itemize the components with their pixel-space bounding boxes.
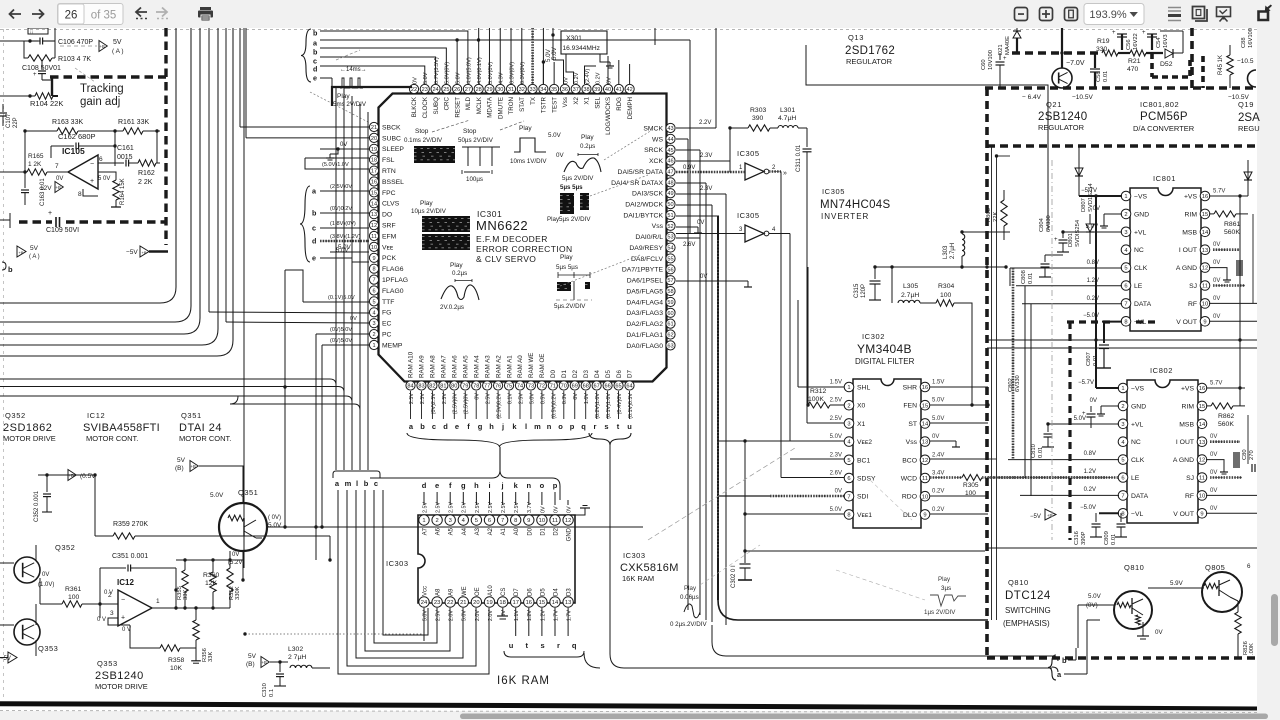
power +B 0.5V	[68, 470, 76, 481]
transistor Q21	[1052, 68, 1072, 88]
svg-text:n: n	[547, 422, 552, 431]
svg-text:16: 16	[526, 600, 532, 606]
svg-text:0V: 0V	[556, 152, 564, 159]
svg-text:MN74HC04S: MN74HC04S	[820, 199, 890, 211]
svg-text:16: 16	[371, 180, 377, 186]
svg-text:5.0V: 5.0V	[456, 72, 462, 84]
resistor R826 100K	[1235, 612, 1241, 634]
svg-text:26: 26	[65, 10, 78, 22]
svg-text:7: 7	[501, 518, 504, 524]
svg-text:3: 3	[847, 421, 850, 427]
svg-text:NC: NC	[1134, 247, 1144, 254]
svg-text:RAM OE: RAM OE	[539, 354, 546, 378]
svg-text:Play: Play	[337, 93, 350, 100]
svg-text:R21: R21	[1128, 58, 1141, 65]
svg-text:70: 70	[561, 384, 567, 390]
svg-text:4.7µH: 4.7µH	[778, 115, 796, 122]
svg-text:−5.7V: −5.7V	[1078, 380, 1094, 386]
svg-text:Stop: Stop	[415, 128, 429, 135]
dashed bottom of Q810 box	[987, 656, 1257, 660]
svg-text:5.0V: 5.0V	[932, 398, 944, 404]
dash leader lines	[432, 120, 470, 132]
svg-text:Q810: Q810	[1124, 563, 1144, 572]
svg-text:0.3V: 0.3V	[562, 393, 568, 404]
svg-text:1.2V: 1.2V	[1087, 278, 1099, 284]
wire R303 corner	[729, 128, 731, 172]
capacitor C58 0.01	[1094, 53, 1096, 68]
svg-text:Q352: Q352	[5, 411, 26, 420]
svg-text:2 2K: 2 2K	[138, 179, 153, 186]
svg-text:100: 100	[940, 292, 952, 299]
thin rails x991 x996	[991, 146, 993, 620]
svg-text:0V: 0V	[606, 77, 612, 84]
svg-text:+VS: +VS	[1184, 194, 1198, 201]
IC303 bottom pins 24-13	[419, 585, 574, 621]
junction dot MCLK wire	[477, 38, 480, 41]
wire SLEEP 0V ground	[320, 148, 369, 150]
svg-text:0V: 0V	[540, 506, 546, 513]
capacitor C54 16V3	[1151, 34, 1153, 50]
svg-text:5.0V: 5.0V	[422, 610, 428, 621]
svg-text:16.9344MHz: 16.9344MHz	[563, 45, 600, 52]
svg-text:R312: R312	[810, 388, 826, 395]
capacitor C109	[55, 217, 57, 227]
svg-text:9: 9	[923, 512, 926, 518]
svg-text:4.0V(5.0V): 4.0V(5.0V)	[466, 57, 472, 84]
svg-text:330K: 330K	[235, 586, 241, 600]
svg-text:54: 54	[667, 246, 673, 252]
svg-text:4: 4	[372, 310, 375, 316]
vertical bus wires center-bottom	[712, 625, 1052, 656]
transistor Q19 clipped	[1248, 70, 1257, 87]
svg-text:49: 49	[667, 191, 673, 197]
svg-text:5ms 2V/DIV: 5ms 2V/DIV	[333, 101, 367, 108]
svg-text:20: 20	[371, 136, 377, 142]
svg-text:0V: 0V	[42, 572, 49, 578]
svg-text:16V3: 16V3	[1163, 34, 1169, 48]
svg-text:C352 0.001: C352 0.001	[34, 490, 40, 522]
IC301 bottom pin stub wires	[411, 391, 630, 419]
svg-text:SWITCHING: SWITCHING	[1005, 606, 1051, 615]
svg-text:IC303: IC303	[386, 559, 409, 568]
svg-text:X0: X0	[857, 403, 866, 410]
svg-text:( A ): ( A )	[112, 48, 124, 55]
vertical scrollbar thumb	[1271, 594, 1278, 646]
svg-text:1.2V: 1.2V	[1084, 469, 1096, 475]
svg-text:13: 13	[1202, 248, 1208, 254]
svg-text:5.0V: 5.0V	[423, 72, 429, 84]
svg-text:D7: D7	[514, 588, 520, 596]
svg-text:R359 270K: R359 270K	[113, 521, 148, 528]
svg-text:0 2µs.2V/DIV: 0 2µs.2V/DIV	[670, 621, 707, 628]
svg-text:1.6V: 1.6V	[584, 393, 590, 404]
arrow PCK leader	[310, 92, 370, 123]
svg-text:R304: R304	[938, 283, 954, 290]
svg-text:E.F.M DECODER: E.F.M DECODER	[476, 234, 548, 244]
svg-text:D6: D6	[527, 588, 533, 596]
svg-text:0V: 0V	[1213, 314, 1220, 320]
svg-text:0.1V: 0.1V	[507, 393, 513, 404]
svg-text:Play: Play	[560, 254, 573, 261]
svg-text:0V: 0V	[697, 220, 704, 226]
svg-text:5.0V: 5.0V	[268, 522, 282, 529]
svg-text:RAM A1: RAM A1	[506, 355, 513, 378]
svg-text:0 V: 0 V	[97, 617, 106, 623]
svg-text:13: 13	[565, 600, 571, 606]
svg-text:19: 19	[371, 147, 377, 153]
svg-text:C310: C310	[262, 683, 268, 697]
svg-text:DEMPH: DEMPH	[627, 97, 634, 119]
svg-text:V OUT: V OUT	[1173, 511, 1194, 518]
diode D52	[1165, 49, 1173, 58]
svg-text:15: 15	[371, 190, 377, 196]
svg-text:SHR: SHR	[903, 385, 917, 392]
svg-text:(2.5V)0V: (2.5V)0V	[453, 393, 459, 415]
svg-text:5.0V: 5.0V	[548, 132, 562, 139]
svg-text:77: 77	[484, 384, 490, 390]
svg-text:0.06µs: 0.06µs	[680, 594, 699, 601]
svg-text:2.2V: 2.2V	[699, 120, 711, 126]
svg-text:(0.1V)0.5V: (0.1V)0.5V	[628, 393, 634, 419]
svg-text:(0V)5.0V: (0V)5.0V	[330, 327, 352, 333]
svg-text:SRCK: SRCK	[644, 147, 663, 154]
svg-text:0.7V(3.5V): 0.7V(3.5V)	[434, 57, 440, 84]
svg-text:5.0V: 5.0V	[529, 393, 535, 404]
svg-text:5 0V: 5 0V	[98, 176, 110, 182]
svg-text:33: 33	[529, 87, 535, 93]
svg-text:d: d	[443, 422, 448, 431]
wire right edge vertical	[1252, 214, 1254, 303]
svg-text:Q805: Q805	[1205, 563, 1225, 572]
svg-text:−5.0V: −5.0V	[1080, 505, 1096, 511]
wire SBCK SUBC stubs	[240, 126, 369, 128]
svg-text:0V: 0V	[1210, 506, 1217, 512]
svg-text:(2.4V): (2.4V)	[585, 69, 591, 84]
svg-text:−10.5: −10.5	[1237, 58, 1254, 65]
svg-text:0V: 0V	[1213, 296, 1220, 302]
svg-text:SDSY: SDSY	[857, 476, 876, 483]
svg-text:e: e	[312, 254, 316, 263]
svg-text:5: 5	[1124, 266, 1127, 272]
svg-text:BLKCK: BLKCK	[411, 96, 418, 117]
svg-text:1.2V: 1.2V	[540, 610, 546, 621]
IC303 bottom letters u t s r q	[509, 608, 577, 650]
svg-text:C60: C60	[981, 59, 987, 70]
svg-text:6: 6	[488, 518, 491, 524]
svg-text:RESET: RESET	[454, 97, 461, 118]
svg-text:10V100: 10V100	[988, 50, 994, 70]
svg-text:MDATA: MDATA	[487, 96, 494, 118]
svg-text:RAM A2: RAM A2	[495, 355, 502, 378]
vertical hatch lines left of DACs	[1012, 268, 1015, 460]
svg-text:14: 14	[552, 600, 559, 606]
svg-text:(5.0V)1.0V: (5.0V)1.0V	[322, 162, 349, 168]
svg-text:IC105: IC105	[62, 146, 85, 156]
svg-text:0.01: 0.01	[1028, 273, 1034, 284]
svg-text:2SD1862: 2SD1862	[3, 422, 52, 434]
power +B 5V(A)	[60, 45, 97, 47]
svg-text:b: b	[364, 479, 369, 488]
svg-text:2.3V: 2.3V	[700, 153, 712, 159]
svg-text:100µs: 100µs	[466, 176, 483, 183]
svg-text:c: c	[374, 479, 378, 488]
svg-text:DAI5/SR DATA: DAI5/SR DATA	[618, 169, 664, 176]
svg-text:SLEEP: SLEEP	[382, 146, 404, 153]
hatched vertical pin33	[531, 28, 534, 85]
svg-text:CXK5816M: CXK5816M	[620, 562, 679, 574]
svg-text:4.0V(0.1V): 4.0V(0.1V)	[477, 57, 483, 84]
svg-text:23: 23	[434, 600, 440, 606]
svg-text:s: s	[541, 641, 545, 650]
svg-text:9: 9	[527, 518, 530, 524]
svg-text:Vss: Vss	[906, 439, 918, 446]
svg-text:C80: C80	[1242, 449, 1248, 460]
svg-text:MOTOR CONT.: MOTOR CONT.	[86, 434, 138, 443]
svg-text:8: 8	[1124, 319, 1127, 325]
svg-text:IC302: IC302	[862, 332, 885, 341]
svg-text:R862: R862	[1218, 413, 1234, 420]
svg-text:16: 16	[1199, 386, 1205, 392]
svg-text:Q13: Q13	[848, 33, 864, 42]
hatched wire DAI5 to inverter	[676, 171, 745, 174]
svg-text:56: 56	[667, 267, 673, 273]
svg-text:A6: A6	[436, 527, 442, 535]
svg-text:SEL: SEL	[594, 96, 601, 108]
svg-text:X2: X2	[573, 96, 580, 104]
svg-text:C315: C315	[854, 283, 860, 298]
svg-text:b: b	[8, 265, 13, 274]
svg-text:−5.0V: −5.0V	[1083, 313, 1099, 319]
svg-text:0.01: 0.01	[1038, 447, 1044, 458]
svg-text:2.5V: 2.5V	[422, 502, 428, 513]
svg-text:52: 52	[667, 224, 673, 230]
svg-text:0.3V(0V): 0.3V(0V)	[509, 62, 515, 84]
svg-text:55: 55	[667, 256, 673, 262]
dotted 5V B supply to IC303 Vcc	[245, 633, 424, 635]
svg-text:1: 1	[156, 598, 160, 605]
IC302 body	[853, 379, 921, 528]
svg-text:PCM56P: PCM56P	[1140, 111, 1188, 123]
svg-text:RDO: RDO	[902, 494, 917, 501]
svg-text:Vᴇᴇ1: Vᴇᴇ1	[857, 512, 872, 519]
svg-text:6V330: 6V330	[1015, 375, 1021, 392]
svg-text:2.5V: 2.5V	[420, 393, 426, 404]
svg-text:SJ: SJ	[1189, 283, 1197, 290]
svg-text:38: 38	[583, 87, 589, 93]
svg-text:1µs 2V/DIV: 1µs 2V/DIV	[924, 609, 956, 616]
capacitor C802 6V330	[1090, 406, 1092, 412]
svg-text:RIM: RIM	[1182, 403, 1195, 410]
svg-text:2.4V: 2.4V	[932, 452, 944, 458]
svg-text:CLVS: CLVS	[382, 201, 400, 208]
svg-text:YM3404B: YM3404B	[857, 342, 912, 356]
wire X1 up	[807, 422, 844, 424]
wire Vss52 ground	[676, 226, 690, 228]
svg-text:6: 6	[1124, 284, 1127, 290]
svg-text:Vss: Vss	[562, 97, 569, 107]
svg-text:−: −	[121, 597, 125, 604]
svg-text:12: 12	[565, 518, 571, 524]
svg-text:−VS: −VS	[1134, 194, 1148, 201]
svg-text:C54: C54	[1156, 37, 1162, 48]
svg-text:MN6622: MN6622	[476, 218, 528, 233]
left edge stubs	[0, 40, 6, 42]
svg-text:IC305: IC305	[737, 211, 760, 220]
svg-text:0V: 0V	[1213, 260, 1220, 266]
svg-text:RAM A8: RAM A8	[430, 355, 437, 378]
svg-text:8: 8	[1121, 511, 1124, 517]
svg-text:L302: L302	[288, 646, 303, 653]
svg-text:Play: Play	[684, 585, 697, 592]
IC801 right hooks and hatches	[1213, 248, 1240, 251]
svg-text:2: 2	[847, 403, 850, 409]
svg-text:d: d	[312, 237, 316, 246]
svg-text:D4: D4	[554, 588, 560, 596]
capacitor C56 16V22	[1121, 34, 1123, 50]
svg-text:I OUT: I OUT	[1179, 247, 1197, 254]
svg-text:D3: D3	[567, 588, 573, 596]
IC801 right pins 16-9	[1176, 189, 1226, 327]
svg-text:i: i	[488, 481, 490, 490]
svg-text:DMUTE: DMUTE	[497, 97, 504, 119]
thick -VS rail to IC802	[1095, 340, 1097, 376]
svg-text:560K: 560K	[1218, 421, 1234, 428]
svg-text:DA1/FLAG1: DA1/FLAG1	[626, 332, 663, 339]
svg-text:TX: TX	[530, 97, 537, 105]
wires pins 1-2 down to motor region	[315, 334, 317, 560]
svg-text:MLD: MLD	[465, 96, 472, 110]
wire +VS vertical rail right	[1239, 196, 1241, 406]
svg-text:43: 43	[667, 126, 673, 132]
IC301 right pins 43-63	[611, 123, 675, 350]
diagonal fold leader marks	[648, 448, 795, 540]
wires into IC802 left	[1095, 376, 1097, 388]
wire x285 vertical mid	[284, 270, 286, 527]
svg-text:9: 9	[1200, 511, 1203, 517]
svg-text:2 7µH: 2 7µH	[288, 654, 306, 661]
svg-text:DTC124: DTC124	[1005, 590, 1051, 602]
svg-text:14: 14	[922, 421, 929, 427]
svg-text:10K: 10K	[170, 665, 183, 672]
svg-text:(3.8V)(1.2V): (3.8V)(1.2V)	[330, 234, 361, 240]
svg-text:11: 11	[1199, 476, 1205, 482]
svg-text:2.5V: 2.5V	[830, 398, 842, 404]
svg-text:DAI3/SCK: DAI3/SCK	[632, 191, 663, 198]
resistor R164	[113, 180, 119, 200]
wires node group2 to pins	[320, 190, 369, 192]
fit page icon	[1065, 8, 1078, 21]
svg-text:Q351: Q351	[238, 488, 258, 497]
svg-text:1.1V: 1.1V	[514, 610, 520, 621]
svg-text:5.7V: 5.7V	[1210, 381, 1222, 387]
svg-text:C808: C808	[1021, 270, 1027, 284]
svg-text:IC305: IC305	[737, 149, 760, 158]
svg-text:Vcc: Vcc	[423, 586, 429, 596]
svg-text:2.5V: 2.5V	[488, 502, 494, 513]
wire SDSY	[781, 477, 844, 479]
svg-text:e: e	[435, 481, 439, 490]
svg-text:−VL: −VL	[1131, 511, 1144, 518]
exit fullscreen icon	[1259, 5, 1273, 21]
wire 267 horizontal	[875, 266, 1007, 268]
svg-text:DAI4/ SR DATAX: DAI4/ SR DATAX	[611, 180, 663, 187]
svg-text:C107: C107	[6, 113, 12, 128]
svg-text:0.01: 0.01	[1111, 534, 1117, 545]
svg-text:60: 60	[667, 311, 673, 317]
svg-text:1: 1	[372, 343, 375, 349]
brace letters b a bottom right	[1048, 655, 1056, 680]
svg-text:42: 42	[626, 87, 632, 93]
svg-text:82: 82	[429, 384, 435, 390]
svg-text:5.0V: 5.0V	[830, 507, 842, 513]
svg-text:−10.5V: −10.5V	[1072, 94, 1093, 101]
svg-text:b: b	[420, 422, 425, 431]
svg-text:5.0V: 5.0V	[551, 46, 558, 60]
svg-text:5µs 5µs: 5µs 5µs	[560, 184, 583, 191]
svg-text:1.2V: 1.2V	[527, 610, 533, 621]
page top edge	[0, 29, 1257, 31]
bus funnel brace under IC301 a-p	[407, 433, 592, 447]
svg-text:(0.2V)1.6V: (0.2V)1.6V	[595, 393, 601, 419]
svg-text:Play5µs 2V/DIV: Play5µs 2V/DIV	[547, 216, 591, 223]
svg-text:GND: GND	[1134, 211, 1149, 218]
jump prev icon	[136, 8, 147, 17]
svg-text:NC: NC	[1131, 439, 1141, 446]
svg-text:+VL: +VL	[1134, 229, 1147, 236]
svg-text:C163 0.01: C163 0.01	[40, 178, 46, 206]
wire DEMPH right corner	[654, 28, 656, 45]
svg-text:0V: 0V	[1210, 452, 1217, 458]
svg-text:Q19: Q19	[1238, 100, 1254, 109]
svg-text:1: 1	[1121, 386, 1124, 392]
svg-text:6: 6	[1121, 476, 1124, 482]
svg-text:R165: R165	[28, 153, 44, 160]
svg-text:45: 45	[667, 148, 673, 154]
svg-text:D2: D2	[572, 370, 579, 378]
wires b a to brace right	[1052, 656, 1058, 661]
svg-text:0V: 0V	[1213, 242, 1220, 248]
svg-text:b: b	[312, 209, 317, 218]
svg-text:120P: 120P	[861, 284, 867, 298]
wire feedback left	[94, 475, 96, 536]
svg-text:Vᴇᴇ2: Vᴇᴇ2	[857, 439, 872, 446]
svg-text:l: l	[525, 422, 527, 431]
svg-text:WS: WS	[652, 136, 663, 143]
svg-text:0.2V: 0.2V	[932, 489, 944, 495]
svg-text:d: d	[313, 65, 317, 74]
bus corner curves	[230, 396, 238, 404]
svg-text:3: 3	[110, 610, 114, 617]
svg-text:(0.5V)0.2V: (0.5V)0.2V	[551, 393, 557, 419]
svg-text:c: c	[312, 224, 316, 233]
svg-text:67: 67	[594, 384, 600, 390]
svg-text:A GND: A GND	[1176, 265, 1197, 272]
svg-text:2.6V: 2.6V	[830, 471, 842, 477]
svg-text:R103 4 7K: R103 4 7K	[58, 56, 91, 63]
svg-text:2.7µH: 2.7µH	[901, 292, 919, 299]
capacitor C106	[30, 40, 38, 42]
svg-text:D3: D3	[583, 370, 590, 378]
svg-text:g: g	[478, 422, 483, 431]
svg-text:A1: A1	[501, 527, 507, 535]
svg-text:81: 81	[440, 384, 446, 390]
svg-text:0.2µs: 0.2µs	[580, 143, 595, 150]
svg-text:9: 9	[1203, 319, 1206, 325]
svg-text:BC1: BC1	[857, 457, 870, 464]
svg-text:ST: ST	[908, 421, 917, 428]
wire -VS thick	[1079, 195, 1122, 197]
svg-text:TEST: TEST	[551, 97, 558, 113]
